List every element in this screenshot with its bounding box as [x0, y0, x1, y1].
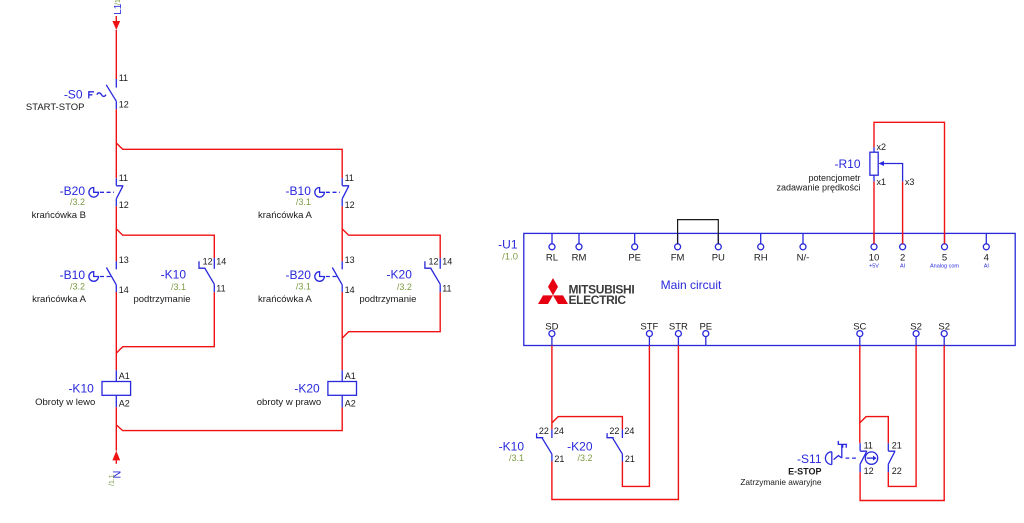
- svg-text:+5V: +5V: [869, 263, 879, 269]
- wire SC to S11: [859, 346, 861, 444]
- contactor contact K10 NO (aux): [499, 426, 565, 464]
- svg-text:/3.1: /3.1: [509, 453, 524, 463]
- limit switch B10 NO: [32, 255, 129, 305]
- terminal SD: [545, 322, 558, 346]
- svg-text:12: 12: [203, 257, 213, 267]
- wire branch to K20 contact: [342, 229, 440, 258]
- svg-text:13: 13: [119, 255, 129, 265]
- wire branch to right column: [116, 143, 342, 178]
- wire B20 to coil K20: [341, 292, 343, 370]
- svg-text:14: 14: [442, 257, 452, 267]
- limit switch B20 NC: [32, 173, 129, 221]
- svg-text:-B20: -B20: [60, 184, 86, 198]
- wire R10 x3 to terminal 2: [902, 181, 904, 243]
- svg-text:/3.1: /3.1: [296, 197, 311, 207]
- terminal S2 a: [910, 322, 922, 346]
- svg-text:-K20: -K20: [387, 268, 413, 282]
- svg-text:/1.1: /1.1: [115, 0, 122, 5]
- svg-text:11: 11: [345, 173, 354, 183]
- svg-text:A2: A2: [345, 399, 356, 409]
- svg-text:/3.2: /3.2: [577, 453, 592, 463]
- svg-text:12: 12: [119, 200, 129, 210]
- terminal PE bottom: [699, 322, 712, 346]
- wire SD to K10 contact: [551, 346, 553, 430]
- terminal RH: [754, 233, 768, 263]
- svg-text:/1.0: /1.0: [502, 252, 518, 263]
- svg-text:potencjometr: potencjometr: [808, 173, 860, 183]
- svg-text:10: 10: [869, 252, 880, 263]
- svg-text:podtrzymanie: podtrzymanie: [359, 294, 416, 305]
- svg-text:AI: AI: [984, 263, 990, 269]
- wire S11 12 to S2 b: [860, 346, 944, 501]
- terminal N/-: [797, 233, 810, 263]
- svg-text:Obroty w lewo: Obroty w lewo: [35, 397, 95, 408]
- net N label: [109, 471, 124, 487]
- wire branch SD to K20 contact: [552, 417, 623, 430]
- svg-text:14: 14: [345, 285, 355, 295]
- svg-text:24: 24: [624, 426, 634, 436]
- coil K20: [257, 370, 357, 408]
- svg-text:krańcówka A: krańcówka A: [32, 294, 87, 305]
- svg-text:/3.1: /3.1: [296, 281, 311, 291]
- svg-text:zadawanie prędkości: zadawanie prędkości: [776, 183, 860, 193]
- svg-text:RL: RL: [546, 252, 558, 263]
- svg-text:E-STOP: E-STOP: [788, 466, 821, 476]
- wire coil K10 to N: [115, 407, 117, 450]
- svg-text:FM: FM: [671, 252, 685, 263]
- terminal S2 b: [938, 322, 950, 346]
- svg-text:11: 11: [119, 73, 128, 83]
- svg-text:-K10: -K10: [499, 440, 525, 454]
- svg-text:-K10: -K10: [161, 268, 187, 282]
- svg-text:N/-: N/-: [797, 252, 810, 263]
- Mitsubishi logo: [538, 278, 634, 307]
- wire K10 contact to STR: [552, 346, 679, 500]
- svg-text:RH: RH: [754, 252, 768, 263]
- svg-text:ELECTRIC: ELECTRIC: [569, 293, 627, 307]
- svg-text:PU: PU: [712, 252, 725, 263]
- svg-text:-K10: -K10: [68, 382, 94, 396]
- net L1 label: [113, 0, 124, 15]
- contactor contact K20 NO: [359, 257, 452, 306]
- wire K20 contact to rejoin: [342, 292, 440, 338]
- svg-text:A1: A1: [345, 371, 356, 381]
- wire R10 x2 to terminal 5: [874, 122, 945, 244]
- svg-text:14: 14: [216, 257, 226, 267]
- coil K10: [35, 370, 130, 408]
- svg-text:11: 11: [864, 441, 873, 451]
- svg-text:-B20: -B20: [286, 268, 312, 282]
- svg-text:/3.1: /3.1: [171, 282, 186, 292]
- terminal STR: [669, 322, 688, 346]
- contactor contact K10 NO: [133, 257, 226, 306]
- terminal PE top: [628, 233, 641, 263]
- svg-text:/3.2: /3.2: [70, 281, 85, 291]
- sink arrow N: [112, 451, 120, 464]
- svg-text:/1.1: /1.1: [109, 474, 116, 486]
- svg-text:x3: x3: [905, 177, 915, 187]
- svg-text:-S11: -S11: [797, 452, 822, 466]
- svg-text:A1: A1: [119, 371, 130, 381]
- wire branch SC to S11 second contact: [860, 417, 889, 444]
- terminal 2: [900, 233, 906, 269]
- terminal 4: [983, 233, 989, 269]
- svg-text:A2: A2: [119, 399, 130, 409]
- svg-text:podtrzymanie: podtrzymanie: [133, 294, 190, 305]
- wire S11 22 to S2 a: [888, 346, 916, 487]
- svg-text:11: 11: [442, 283, 451, 293]
- wire R10 x1 to terminal 10: [873, 181, 875, 243]
- svg-text:-B10: -B10: [286, 184, 312, 198]
- svg-text:12: 12: [119, 100, 129, 110]
- source arrow L1: [112, 16, 120, 30]
- svg-text:12: 12: [428, 257, 438, 267]
- svg-text:5: 5: [942, 252, 947, 263]
- svg-text:22: 22: [609, 426, 619, 436]
- wire branch to K10 contact: [116, 229, 214, 258]
- svg-text:12: 12: [864, 466, 874, 476]
- svg-text:2: 2: [900, 252, 905, 263]
- svg-text:Main circuit: Main circuit: [661, 278, 722, 292]
- svg-text:-K20: -K20: [567, 440, 593, 454]
- bottom wire to coil K20: [116, 407, 342, 430]
- svg-text:-S0: -S0: [64, 88, 83, 102]
- potentiometer R10: [776, 142, 914, 193]
- svg-text:RM: RM: [572, 252, 587, 263]
- svg-text:11: 11: [119, 173, 128, 183]
- svg-text:11: 11: [216, 283, 225, 293]
- contactor contact K20 NO (aux): [567, 426, 635, 464]
- svg-text:obroty w prawo: obroty w prawo: [257, 397, 321, 408]
- svg-text:/3.2: /3.2: [397, 282, 412, 292]
- wire K20 contact to STF: [622, 346, 649, 487]
- terminal RL: [546, 233, 558, 263]
- svg-text:krańcówka A: krańcówka A: [258, 210, 313, 221]
- jumper FM-PU: [678, 220, 719, 244]
- svg-text:4: 4: [984, 252, 989, 263]
- svg-text:AI: AI: [900, 263, 906, 269]
- svg-text:x2: x2: [877, 142, 887, 152]
- svg-text:14: 14: [119, 285, 129, 295]
- terminal SC: [853, 322, 866, 346]
- svg-text:Zatrzymanie awaryjne: Zatrzymanie awaryjne: [740, 477, 822, 487]
- svg-text:22: 22: [539, 426, 549, 436]
- emergency stop S11 contact 11-12: [860, 441, 874, 477]
- svg-text:21: 21: [554, 454, 564, 464]
- svg-text:12: 12: [345, 200, 355, 210]
- svg-text:-B10: -B10: [60, 268, 86, 282]
- terminal FM: [671, 233, 685, 263]
- svg-text:/3.2: /3.2: [70, 197, 85, 207]
- svg-text:krańcówka B: krańcówka B: [32, 210, 86, 221]
- svg-text:24: 24: [554, 426, 564, 436]
- svg-text:krańcówka A: krańcówka A: [258, 294, 313, 305]
- svg-text:PE: PE: [628, 252, 641, 263]
- terminal PU: [712, 233, 725, 263]
- inverter U1 box: [498, 233, 1015, 345]
- limit switch B10 NC (right branch): [258, 173, 355, 221]
- svg-text:-U1: -U1: [498, 238, 518, 252]
- svg-text:22: 22: [892, 466, 902, 476]
- svg-text:-R10: -R10: [834, 157, 860, 171]
- limit switch B20 NO (right branch): [258, 255, 355, 305]
- wire B10 to coil K10: [115, 292, 117, 370]
- wire B10 to junction (right branch): [341, 206, 343, 261]
- svg-text:START-STOP: START-STOP: [26, 102, 85, 113]
- terminal 10: [869, 233, 880, 269]
- terminal STF: [640, 322, 658, 346]
- terminal 5: [930, 233, 959, 269]
- svg-text:-K20: -K20: [294, 382, 320, 396]
- svg-text:x1: x1: [877, 177, 887, 187]
- switch S0 START-STOP: [26, 73, 129, 113]
- wire K10 contact to rejoin: [116, 292, 214, 353]
- svg-text:13: 13: [345, 255, 355, 265]
- wire S0 to split junction: [115, 109, 117, 178]
- wire B20 to junction 2: [115, 206, 117, 261]
- wire L1 to S0: [115, 30, 117, 79]
- terminal RM: [572, 233, 587, 263]
- svg-text:21: 21: [892, 441, 902, 451]
- emergency stop S11 contact 21-22: [888, 441, 902, 477]
- svg-text:21: 21: [625, 454, 635, 464]
- svg-text:Analog com: Analog com: [930, 263, 959, 269]
- emergency stop S11 actuator: [740, 441, 877, 487]
